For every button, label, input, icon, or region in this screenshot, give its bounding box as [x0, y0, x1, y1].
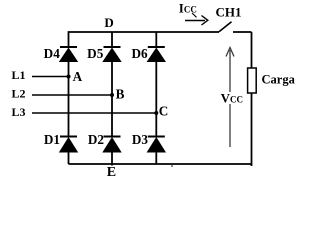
current label Icc [179, 1, 197, 18]
svg-text:D2: D2 [88, 132, 105, 147]
svg-text:C: C [159, 103, 169, 118]
wire branch 3 lower stub to bottom bus [155, 153, 157, 165]
node A junction dot [67, 69, 83, 84]
wire branch 2 vertical (top bus to D5, D5 anode through node B to D2 cathode) [111, 32, 113, 137]
svg-text:D5: D5 [87, 46, 104, 61]
wire L1 input line [12, 68, 69, 82]
svg-text:CH1: CH1 [216, 4, 242, 19]
diode D5 [87, 46, 122, 62]
node B junction dot [110, 86, 125, 101]
svg-text:D: D [104, 15, 113, 30]
wire branch 1 vertical (D4 anode through node A to D1 cathode) [68, 62, 70, 137]
svg-text:E: E [107, 165, 116, 180]
svg-text:D1: D1 [44, 132, 60, 147]
wire top bus from bridge to switch [69, 32, 220, 47]
svg-text:A: A [73, 69, 83, 84]
svg-text:L2: L2 [12, 87, 26, 101]
wire bottom bus E [69, 164, 252, 167]
wire right vertical upper (switch to load) [251, 32, 253, 68]
svg-text:L1: L1 [12, 68, 26, 82]
switch CH1 blade and contact [219, 22, 252, 32]
diode D3 [132, 132, 166, 153]
switch CH1 label [216, 4, 242, 19]
svg-text:D6: D6 [131, 46, 148, 61]
svg-text:D3: D3 [132, 132, 149, 147]
svg-text:Carga: Carga [262, 73, 296, 87]
diode D2 [88, 132, 122, 153]
resistor Carga (load) [248, 68, 296, 93]
wire L2 input line [12, 87, 113, 101]
wire branch 3 vertical (top bus to D6, D6 anode through node C to D3 cathode) [155, 32, 157, 137]
diode D1 [44, 132, 78, 153]
current arrow Icc [185, 16, 208, 26]
node C junction dot [154, 103, 168, 118]
node D label [104, 15, 113, 30]
wire right vertical lower (load to bottom bus) [251, 93, 253, 166]
svg-text:D4: D4 [44, 46, 61, 61]
svg-text:B: B [116, 86, 125, 101]
wire branch 1 lower stub to bottom bus [68, 153, 70, 165]
node E label [107, 165, 116, 180]
wire L3 input line [12, 105, 157, 119]
voltage arrow Vcc [226, 48, 234, 148]
diode D6 [131, 46, 166, 62]
diode D4 [44, 46, 79, 62]
wire branch 2 lower stub to bottom bus [111, 153, 113, 166]
voltage label Vcc [220, 91, 243, 106]
svg-text:L3: L3 [12, 105, 26, 119]
